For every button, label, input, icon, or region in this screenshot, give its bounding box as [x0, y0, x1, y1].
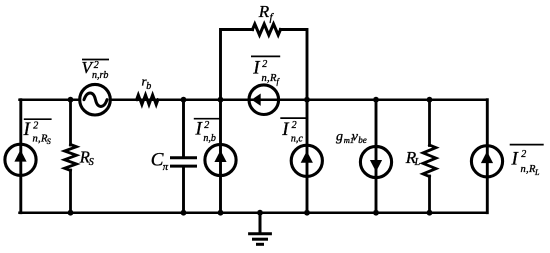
- label RL: [405, 148, 421, 168]
- label RS: [79, 148, 94, 168]
- svg-text:S: S: [47, 137, 51, 146]
- wire Rf loop left and top: [221, 30, 253, 100]
- svg-text:g: g: [336, 130, 343, 145]
- label Cpi: [151, 150, 169, 174]
- voltage source Vnrb: [80, 84, 111, 115]
- svg-text:n,rb: n,rb: [92, 70, 108, 81]
- node dot top Inb: [218, 97, 224, 103]
- node dot top RS: [68, 97, 74, 103]
- wire Rf loop right: [281, 30, 308, 100]
- svg-text:n,b: n,b: [203, 133, 216, 144]
- node dot bottom Inb: [218, 210, 224, 216]
- node dot top RL: [427, 97, 433, 103]
- label rb: [142, 74, 152, 93]
- wire RL branch bottom: [428, 176, 431, 213]
- arrow Inc up: [301, 151, 313, 163]
- current source Inb: [205, 144, 236, 175]
- current source InRL: [471, 146, 502, 177]
- resistor Rf: [253, 24, 281, 35]
- svg-text:n,c: n,c: [291, 134, 304, 145]
- wire left branch: [19, 100, 22, 213]
- label Vnrb: [82, 58, 110, 81]
- svg-text:I: I: [23, 119, 32, 140]
- wire Cpi branch bottom: [182, 168, 185, 213]
- svg-text:2: 2: [521, 149, 526, 160]
- node dot top gm: [373, 97, 379, 103]
- svg-text:2: 2: [33, 121, 38, 132]
- svg-text:b: b: [146, 81, 151, 92]
- svg-text:n,R: n,R: [33, 134, 48, 145]
- current source InRf: [249, 85, 279, 115]
- current source InRS: [5, 144, 36, 175]
- capacitor Cpi: [172, 158, 196, 166]
- node dot bottom Inc: [304, 210, 310, 216]
- node dot top Inc: [304, 97, 310, 103]
- svg-text:S: S: [89, 157, 94, 168]
- arrow InRf left: [252, 94, 261, 106]
- wire top bus: [20, 98, 488, 101]
- node dot ground: [257, 210, 263, 216]
- label InRf: [251, 56, 281, 86]
- label Inc: [280, 118, 306, 144]
- svg-text:n,R: n,R: [521, 164, 536, 175]
- wire right branch: [486, 100, 489, 213]
- label InRL: [510, 145, 544, 177]
- current source gm1vbe: [360, 146, 391, 177]
- label Inb: [194, 119, 220, 145]
- resistor rb: [137, 95, 159, 105]
- wire Cpi branch top: [182, 100, 185, 157]
- wire Rs branch bottom: [69, 170, 72, 213]
- node dot bottom Cpi: [181, 210, 187, 216]
- arrow InRL up: [481, 151, 493, 163]
- svg-text:2: 2: [262, 59, 267, 70]
- label InRS: [23, 119, 52, 146]
- wire RL branch top: [428, 100, 431, 146]
- svg-text:I: I: [195, 119, 204, 140]
- svg-text:I: I: [511, 149, 520, 170]
- node dot bottom RS: [68, 210, 74, 216]
- resistor RS: [65, 145, 77, 171]
- wire bottom bus: [20, 211, 488, 214]
- svg-text:L: L: [414, 157, 421, 168]
- ground: [250, 213, 271, 245]
- arrow Inb up: [214, 150, 226, 162]
- label gm1vbe: [336, 130, 367, 145]
- svg-text:2: 2: [292, 120, 297, 131]
- arrow InRS up: [14, 150, 26, 162]
- svg-text:be: be: [358, 135, 367, 145]
- wire Inb branch: [219, 100, 222, 213]
- node dot bottom gm: [373, 210, 379, 216]
- arrow gm1vbe down: [370, 160, 382, 172]
- svg-text:2: 2: [204, 120, 209, 131]
- node dot top Cpi: [181, 97, 187, 103]
- wire Rs branch top: [69, 100, 72, 145]
- svg-text:L: L: [534, 168, 540, 177]
- label Rf: [258, 2, 275, 24]
- svg-text:I: I: [281, 119, 290, 140]
- svg-text:I: I: [252, 58, 261, 79]
- svg-text:π: π: [163, 162, 169, 173]
- node dot bottom RL: [427, 210, 433, 216]
- resistor RL: [423, 145, 436, 177]
- svg-text:f: f: [277, 77, 281, 86]
- current source Inc: [291, 145, 322, 176]
- svg-text:R: R: [258, 2, 270, 21]
- wire Inc branch: [306, 100, 309, 213]
- svg-text:n,R: n,R: [262, 73, 277, 84]
- wire gm branch: [375, 100, 378, 213]
